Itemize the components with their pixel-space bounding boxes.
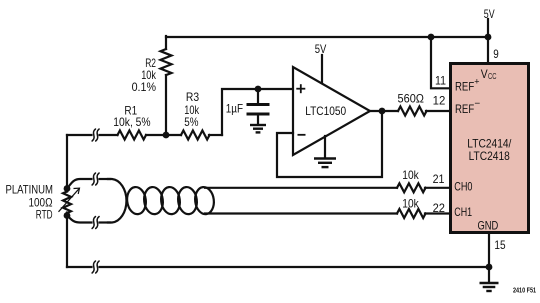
- svg-text:12: 12: [433, 94, 446, 108]
- svg-text:CC: CC: [488, 71, 497, 81]
- svg-text:5V: 5V: [315, 42, 327, 56]
- svg-text:CH1: CH1: [454, 205, 472, 219]
- svg-text:22: 22: [433, 201, 446, 215]
- svg-text:LTC2418: LTC2418: [469, 149, 510, 163]
- svg-text:GND: GND: [478, 219, 499, 233]
- svg-text:5%: 5%: [184, 115, 198, 129]
- svg-text:CH0: CH0: [454, 180, 472, 194]
- svg-text:+: +: [474, 77, 479, 87]
- svg-text:9: 9: [493, 47, 499, 61]
- svg-text:RTD: RTD: [36, 208, 53, 222]
- svg-text:LTC1050: LTC1050: [305, 104, 346, 118]
- svg-text:15: 15: [494, 238, 505, 252]
- svg-text:V: V: [481, 67, 488, 81]
- svg-text:21: 21: [433, 172, 445, 186]
- svg-text:10k: 10k: [402, 197, 419, 211]
- svg-text:10k: 10k: [402, 168, 419, 182]
- svg-text:11: 11: [435, 74, 446, 88]
- svg-text:2410 F51: 2410 F51: [513, 285, 536, 294]
- svg-text:REF: REF: [455, 80, 474, 94]
- svg-text:PLATINUM: PLATINUM: [6, 182, 54, 196]
- svg-text:10k, 5%: 10k, 5%: [113, 115, 151, 129]
- svg-text:0.1%: 0.1%: [132, 80, 157, 94]
- svg-text:5V: 5V: [484, 7, 495, 21]
- svg-text:560Ω: 560Ω: [398, 92, 425, 106]
- svg-text:1µF: 1µF: [226, 102, 243, 116]
- svg-text:−: −: [474, 99, 480, 110]
- svg-text:REF: REF: [455, 102, 474, 116]
